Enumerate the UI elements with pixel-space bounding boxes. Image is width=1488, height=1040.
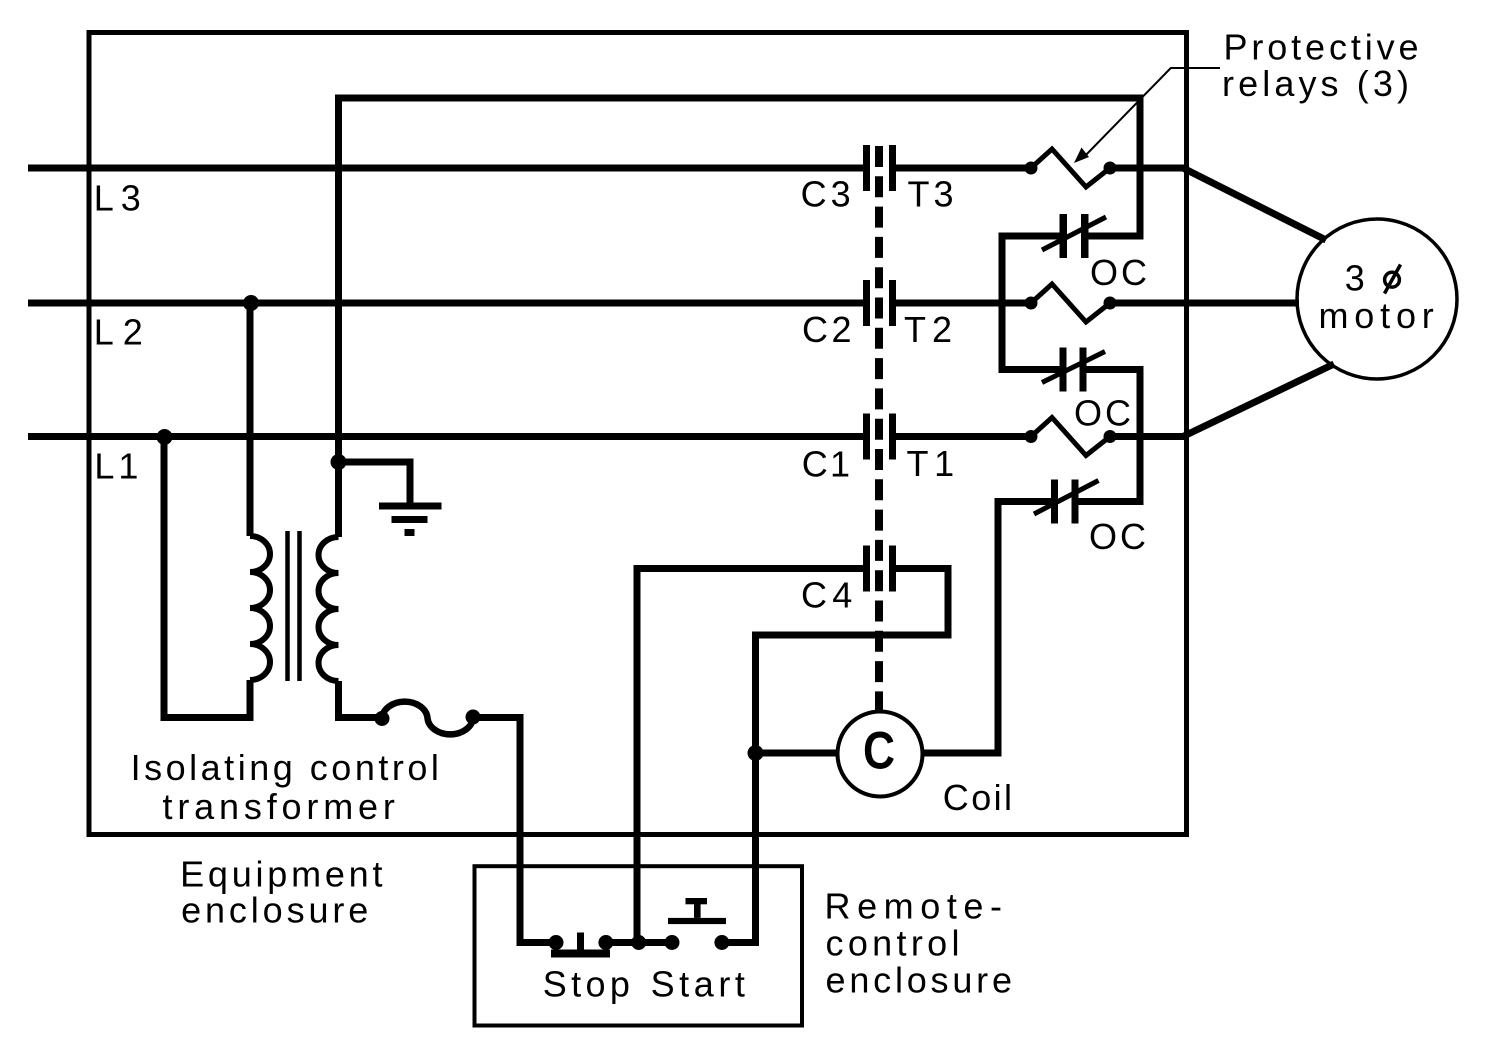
wire OC1 row right <box>1088 233 1144 240</box>
svg-text:C4: C4 <box>801 575 855 616</box>
wire L3 middle segment <box>895 165 1032 172</box>
protective relay L1 <box>1025 418 1117 456</box>
wire L1 middle segment <box>895 433 1032 440</box>
wire fuse right horizontal <box>473 714 524 721</box>
wire C4 return drop <box>945 565 952 639</box>
svg-text:C: C <box>863 722 895 781</box>
svg-text:C1: C1 <box>802 443 853 484</box>
mechanical linkage dashed line <box>875 146 883 712</box>
wire L1 to motor diagonal <box>1184 364 1334 436</box>
wire OC3 to coil link <box>995 498 1002 753</box>
contactor contact C3 <box>863 145 896 191</box>
svg-text:Protective: Protective <box>1224 27 1422 68</box>
wire L1 to primary left vertical <box>161 437 168 722</box>
node L2 tap junction <box>243 295 259 311</box>
wire C4 return horizontal <box>752 632 952 639</box>
wire OC3 row right <box>1078 498 1144 505</box>
wire L2 middle segment <box>895 300 1032 307</box>
wire start junction drop <box>634 565 641 943</box>
wire start right to corner <box>722 939 759 946</box>
pushbutton Start (NO) <box>665 898 730 950</box>
wire control drop right <box>1137 95 1144 240</box>
wire fuse right drop <box>517 714 524 946</box>
wire L1 left segment <box>28 433 864 440</box>
wire transformer secondary top drop <box>335 95 342 538</box>
wire ground tap <box>339 462 411 503</box>
svg-text:enclosure: enclosure <box>181 890 371 931</box>
svg-text:relays (3): relays (3) <box>1222 63 1412 104</box>
svg-text:3: 3 <box>1345 258 1368 299</box>
ground <box>379 503 442 537</box>
overload contact OC1 <box>1042 214 1106 258</box>
svg-text:Equipment: Equipment <box>180 853 385 894</box>
fuse F1 <box>375 702 481 735</box>
svg-text:Remote-: Remote- <box>825 886 1006 927</box>
svg-text:C3: C3 <box>801 173 854 214</box>
wire C4 left horizontal <box>634 565 865 572</box>
node coil branch junction <box>748 745 764 761</box>
wire L2 left segment <box>28 300 864 307</box>
contactor contact C2 <box>863 280 896 326</box>
svg-text:control: control <box>826 923 963 964</box>
svg-text:L1: L1 <box>94 445 141 486</box>
svg-text:Stop: Stop <box>543 963 633 1004</box>
wire transformer primary top <box>247 303 254 536</box>
wire stop row left <box>517 939 557 946</box>
svg-text:Start: Start <box>651 963 748 1004</box>
protective relay L3 <box>1025 149 1117 187</box>
svg-text:enclosure: enclosure <box>826 960 1016 1001</box>
overload contact OC2 <box>1042 348 1105 392</box>
svg-text:T3: T3 <box>908 173 957 214</box>
pushbutton Stop (NC) <box>549 933 614 958</box>
coil C <box>838 712 923 797</box>
motor M1 <box>1297 219 1457 379</box>
wire stop-start row middle <box>606 939 672 946</box>
wire control top horizontal <box>335 95 1144 102</box>
wire transformer primary bottom <box>164 680 250 718</box>
wire OC2 row left <box>999 366 1061 373</box>
node ground tap junction <box>331 454 347 470</box>
wire L3 right segment <box>1110 165 1186 172</box>
wire OC1 row left <box>999 233 1061 240</box>
wire coil right <box>921 750 1002 757</box>
overload contact OC3 <box>1034 480 1099 524</box>
svg-text:C2: C2 <box>802 309 855 350</box>
remote-control enclosure <box>475 866 803 1025</box>
wire OC3 row left <box>995 498 1053 505</box>
contactor contact C1 <box>863 414 896 460</box>
protective relay L2 <box>1025 284 1117 322</box>
wire coil left <box>756 750 840 757</box>
svg-text:Coil: Coil <box>943 777 1015 818</box>
contactor contact C4 <box>863 546 896 592</box>
wire L3 to motor diagonal <box>1184 169 1326 241</box>
svg-text:OC: OC <box>1074 392 1134 433</box>
wire L3 left segment <box>28 165 864 172</box>
equipment enclosure <box>89 33 1187 835</box>
leader line to protective relays <box>1074 68 1220 163</box>
wire OC2 row right <box>1086 366 1144 373</box>
wire transformer secondary bottom <box>339 681 383 718</box>
wire coil branch vertical <box>752 632 759 947</box>
wire C4 right to corner <box>895 565 952 572</box>
wire OC1 to OC2 link <box>999 233 1006 374</box>
node L1 tap junction <box>157 429 173 445</box>
isolating control transformer T1 <box>250 531 339 681</box>
svg-text:OC: OC <box>1090 252 1150 293</box>
node start branch junction <box>631 935 646 950</box>
wire L1 right segment <box>1110 433 1186 440</box>
svg-text:Isolating control: Isolating control <box>131 747 442 788</box>
wire OC2 to OC3 link <box>1137 366 1144 505</box>
svg-text:OC: OC <box>1089 516 1149 557</box>
wire L2 right segment to motor <box>1110 300 1299 307</box>
